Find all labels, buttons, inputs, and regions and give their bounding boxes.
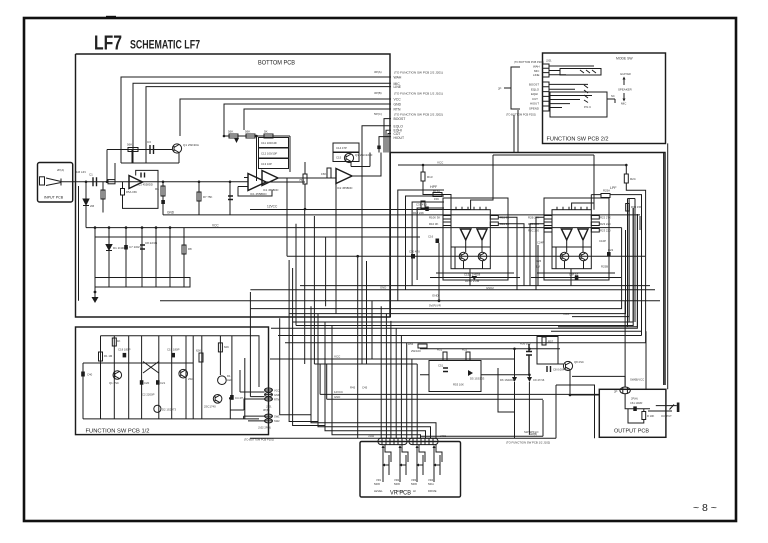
svg-text:R53 10K: R53 10K (453, 383, 464, 387)
svg-text:C51: C51 (438, 364, 444, 368)
svg-text:C61 100/R: C61 100/R (630, 401, 643, 405)
drive bias box (537, 337, 558, 365)
svg-text:R51: R51 (437, 348, 443, 352)
rail gnd4 (250, 289, 655, 291)
svg-text:5V(P)/VR: 5V(P)/VR (429, 304, 441, 308)
svg-text:VR3: VR3 (411, 478, 417, 482)
FUNCTION SW PCB 2/2 box (543, 53, 666, 144)
svg-text:C14 47P: C14 47P (336, 146, 347, 150)
svg-text:R7 75K: R7 75K (203, 195, 212, 199)
svg-text:D6 1N4002: D6 1N4002 (500, 378, 515, 382)
ground arrow (92, 297, 99, 303)
svg-text:(TO BOTTOM PCB P201): (TO BOTTOM PCB P201) (514, 60, 544, 64)
wire MIC bus (133, 83, 391, 163)
svg-text:C4 47U: C4 47U (235, 396, 244, 400)
wire drop f (169, 228, 171, 278)
svg-text:2SC1740: 2SC1740 (204, 405, 216, 409)
svg-text:2SC: 2SC (188, 377, 193, 381)
resistor R1 input (108, 180, 115, 184)
jfet pair HPF left (460, 229, 471, 240)
f12 second rail (83, 362, 193, 364)
svg-text:56K: 56K (127, 143, 132, 147)
svg-text:LF7: LF7 (94, 32, 122, 55)
wire center drop 366 (366, 261, 368, 364)
svg-text:12VCC: 12VCC (267, 205, 278, 209)
svg-text:R55: R55 (408, 342, 414, 346)
svg-text:C3: C3 (147, 140, 151, 144)
wire R38 riser (304, 162, 306, 209)
diode drive (468, 370, 473, 376)
hpf inner box pin ticks (456, 207, 486, 210)
svg-text:GND: GND (274, 393, 280, 397)
vr feed 4 (395, 328, 397, 438)
wire bias riser (85, 182, 87, 228)
svg-text:50KA: 50KA (428, 483, 434, 486)
resistor R30 (626, 204, 630, 212)
f12 comb 11 (244, 358, 246, 419)
pot VR3 wiper (419, 455, 423, 475)
svg-text:C15: C15 (336, 156, 342, 160)
wire ext inner vertical (593, 155, 595, 203)
wire vert 325 (325, 237, 327, 306)
f12 comb 0 (192, 336, 194, 419)
hpf bottom rungs (430, 273, 520, 278)
f12 cross wires (143, 362, 159, 374)
svg-text:J102 2P(B): J102 2P(B) (258, 426, 271, 430)
svg-text:2P(H): 2P(H) (631, 397, 638, 401)
resistor R14 (443, 222, 451, 226)
resistor R25A (601, 194, 610, 198)
svg-text:C40: C40 (87, 373, 93, 377)
fsw22 nc stub (607, 99, 615, 103)
capacitor stack C12 (259, 148, 289, 158)
svg-text:2P: 2P (498, 87, 502, 91)
junction dot vr feed (356, 255, 359, 258)
VCC tone rail (398, 164, 626, 166)
svg-text:(TO BOTTOM PCB P101): (TO BOTTOM PCB P101) (244, 438, 274, 442)
capacitor C47u (230, 395, 234, 400)
svg-text:VCC: VCC (274, 388, 280, 392)
fsw22 wires g1 (549, 66, 594, 75)
f12 comb 8 (201, 336, 203, 419)
svg-text:56K: 56K (228, 130, 233, 134)
capacitor C4 (228, 196, 233, 200)
svg-text:C12 100/10F: C12 100/10F (261, 152, 277, 156)
wire drop a (94, 228, 96, 278)
svg-text:R24: R24 (630, 177, 636, 181)
lpf inner box (552, 210, 591, 269)
svg-text:C11 100/10F: C11 100/10F (261, 141, 277, 145)
resistor R11b (490, 222, 498, 226)
capacitor C2 polar (161, 200, 165, 204)
capacitor C30 on mid rail (411, 254, 415, 259)
svg-text:VR1: VR1 (376, 478, 382, 482)
lpf bottom rungs (531, 273, 621, 278)
svg-text:2M: 2M (90, 204, 95, 208)
resistor R62 (199, 353, 203, 362)
transistor Q103 (213, 395, 222, 404)
svg-text:R10K 3K: R10K 3K (429, 216, 440, 220)
svg-text:1M LIN: 1M LIN (76, 170, 86, 174)
op-amp IC1a (248, 174, 266, 191)
resistor R12 (421, 201, 425, 209)
capacitor C60 (633, 406, 637, 411)
f12 connector J103 pins (265, 416, 273, 421)
wire pass vert 279 (280, 318, 311, 415)
rail gnd3 (300, 285, 650, 287)
f12 comb 2 (113, 336, 115, 419)
wire output connector riser (625, 301, 646, 389)
wire hpf cap drop (438, 243, 440, 301)
resistor R11 (490, 216, 498, 220)
pot VR3 (416, 448, 418, 482)
capacitor C8 0.0047 (547, 366, 551, 372)
svg-text:62K: 62K (196, 349, 201, 353)
wire f12 feed rtn (230, 398, 264, 419)
junction dots row (255, 135, 258, 138)
svg-text:15K: 15K (434, 197, 439, 201)
INPUT PCB box (38, 163, 73, 203)
capacitor C8 (140, 245, 145, 249)
transistor Q1 leads (174, 145, 179, 159)
svg-text:LINE: LINE (394, 85, 402, 89)
f12 comb 5 (158, 336, 160, 419)
wire 498 drop (498, 368, 515, 412)
wire hpf loop4 (417, 208, 444, 280)
capacitor C21 (156, 380, 160, 385)
wire op-amp out (266, 181, 305, 183)
VCC rail (86, 227, 441, 229)
wire IC1b out (278, 177, 336, 179)
pot VR4 wiper (436, 455, 440, 475)
wire vert 304 (304, 210, 306, 365)
svg-text:3P(B): 3P(B) (263, 408, 270, 412)
wire hpf mid (451, 246, 490, 248)
wire q8 base feed (558, 363, 563, 365)
resistor R60 (642, 412, 646, 420)
svg-text:HPF: HPF (430, 185, 438, 189)
svg-text:SCHEMATIC LF7: SCHEMATIC LF7 (130, 38, 200, 52)
rail 364 (314, 363, 417, 365)
output jack switch (670, 405, 675, 410)
svg-text:GND: GND (380, 286, 386, 290)
wire f12 feed vcc (240, 309, 265, 397)
svg-text:SW(B)VCC: SW(B)VCC (630, 378, 644, 382)
FUNCTION SW PCB 1/2 box (76, 327, 269, 435)
svg-text:WAH: WAH (394, 76, 402, 80)
capacitor on HIOUT riser (377, 146, 380, 150)
capacitor C3 (150, 145, 154, 154)
OUTPUT PCB box (599, 389, 666, 437)
staircase right 1 (572, 205, 629, 317)
svg-text:3P(B): 3P(B) (374, 91, 382, 95)
pot VR1 (382, 448, 384, 482)
svg-text:VR2: VR2 (394, 478, 400, 482)
svg-text:56K: 56K (245, 130, 250, 134)
svg-text:BASS: BASS (396, 489, 404, 493)
wire ext top verticals (390, 153, 392, 318)
svg-text:62K: 62K (224, 345, 229, 349)
wire Q3 emitter (351, 166, 370, 168)
rail aux (95, 236, 420, 238)
wire ground return left (78, 186, 80, 301)
wire drop d (141, 228, 143, 278)
transistor lpf Q left (560, 252, 569, 261)
svg-text:IC1 4558DD: IC1 4558DD (263, 188, 278, 192)
wire R6 riser (162, 182, 164, 215)
mode down arrow (623, 93, 625, 99)
wire output feed (572, 376, 625, 387)
output jack line2 (648, 410, 672, 412)
f12 comb 4 (141, 336, 143, 419)
svg-text:CUT: CUT (532, 97, 538, 101)
resistor R2D (544, 229, 552, 233)
jfet pair LPF right (578, 229, 588, 240)
svg-text:DRIVE: DRIVE (428, 489, 437, 493)
fsw22 switch marks 2 (584, 85, 588, 103)
capacitor feedback c5 (141, 173, 145, 178)
svg-text:FUNCTION SW PCB 1/2: FUNCTION SW PCB 1/2 (86, 429, 150, 435)
svg-text:50KB: 50KB (394, 483, 400, 486)
fsw22 switch marks 1 (580, 70, 596, 73)
wire CUT stub (388, 134, 391, 153)
diode D1 (106, 245, 112, 251)
capacitor hpf polar (436, 239, 440, 244)
wire lpf top feed (572, 155, 594, 210)
capacitor C55 (526, 344, 532, 375)
svg-text:C10P: C10P (599, 239, 606, 243)
wire mid connect a (469, 208, 471, 211)
wire stack right riser (289, 136, 291, 172)
capacitor C20 (140, 380, 144, 385)
capacitor stack C15 (333, 153, 359, 162)
svg-text:C21: C21 (160, 381, 166, 385)
wire preamp row (107, 149, 172, 151)
resistor R60 loop (628, 409, 644, 423)
wire mid row (121, 159, 179, 164)
switch block P101 (95, 278, 190, 288)
wire lpf inner drops (556, 240, 584, 286)
center drop s (325, 322, 426, 438)
svg-text:LEVEL: LEVEL (374, 489, 383, 493)
svg-text:GND: GND (167, 211, 175, 215)
wire VCC bus (180, 99, 391, 136)
input jack plug (40, 177, 45, 185)
transistor lpf Q right (579, 252, 588, 261)
svg-text:VCC: VCC (334, 355, 341, 359)
wire center drop 362 (361, 256, 363, 364)
wire hpf loop1 (398, 190, 444, 301)
capacitor C8F (575, 276, 579, 281)
junction dot (94, 291, 97, 294)
svg-text:15K: 15K (321, 172, 326, 176)
resistor ring box (628, 199, 636, 327)
resistor R57 (542, 337, 546, 345)
wire stack left riser (256, 136, 258, 181)
svg-text:R1 1M: R1 1M (104, 354, 113, 358)
svg-text:SW(B): SW(B) (529, 432, 537, 436)
wire vert 296 (295, 224, 297, 326)
svg-text:C9 47/16: C9 47/16 (533, 378, 545, 382)
resistor R23b (591, 229, 599, 233)
diode D2 (234, 138, 239, 143)
wire vert 357 (357, 256, 359, 438)
fsw22 wires g2 (549, 84, 592, 107)
svg-text:(TO FUNCTION SW PCB 2/2 J201): (TO FUNCTION SW PCB 2/2 J201) (394, 71, 443, 75)
svg-text:D5 1SS133: D5 1SS133 (470, 377, 485, 381)
wire input signal (61, 181, 248, 183)
svg-text:VCC: VCC (394, 98, 402, 102)
pot VR2 wiper (402, 455, 406, 475)
svg-text:C45: C45 (362, 386, 368, 390)
resistor R4 on signal (106, 150, 108, 182)
output jack plug (677, 403, 680, 413)
junction dot vr5 (438, 299, 441, 302)
svg-text:VCC: VCC (437, 161, 444, 165)
resistor R3 (101, 190, 105, 199)
drive box (429, 361, 481, 392)
wire feedback IC1a (238, 187, 272, 197)
capacitor stack C13 (259, 159, 289, 169)
svg-text:J102: J102 (368, 434, 375, 438)
bus line 1 (250, 268, 621, 309)
resistor R33 (229, 134, 238, 138)
svg-text:R10 3K: R10 3K (429, 222, 438, 226)
svg-text:GUITAR: GUITAR (620, 72, 631, 76)
wire input sub riser (102, 182, 104, 213)
resistor R35 (246, 134, 255, 138)
transistor hpf Q right (478, 252, 487, 261)
wire drop e (155, 228, 157, 278)
resistor drive a (443, 352, 447, 361)
svg-text:HI: HI (413, 489, 416, 493)
op-amp IC1a inputs (244, 178, 248, 187)
wire p202 drop b (517, 110, 519, 153)
svg-text:R45: R45 (350, 386, 356, 390)
capacitor C19 (171, 353, 175, 358)
staircase right 2 (565, 208, 633, 322)
rail vr5 (160, 300, 660, 302)
diode LED D101 (218, 376, 227, 385)
svg-text:75K: 75K (299, 178, 304, 182)
svg-text:R6: R6 (155, 187, 159, 191)
vr feed 1 (380, 306, 382, 438)
staircase right 3 (558, 214, 637, 327)
svg-text:SPEND: SPEND (529, 107, 539, 111)
wire to ground (94, 287, 96, 297)
rail 359 (270, 358, 515, 360)
center drop q (311, 306, 436, 438)
resistor R55 (418, 344, 427, 348)
fsw22 bracket (504, 67, 520, 109)
capacitor stack C14 (333, 143, 359, 152)
center drop t (332, 326, 421, 439)
resistor R38 (303, 174, 307, 184)
wire pass vert 289 (289, 260, 318, 422)
svg-text:GND2: GND2 (486, 286, 494, 290)
svg-text:NC: NC (611, 94, 615, 98)
bus line 4 (296, 208, 633, 326)
fsw22 switch body 1 (560, 69, 601, 76)
bus line 2 (289, 230, 625, 314)
transistor Q101 (113, 371, 122, 380)
wire vert 314 (313, 216, 315, 364)
svg-text:R25A: R25A (603, 189, 610, 193)
svg-text:RTN: RTN (394, 108, 401, 112)
resistor R2B (544, 216, 552, 220)
wire vert 336 (335, 178, 337, 314)
resistor R40 (327, 168, 331, 178)
wire drop c (125, 228, 127, 278)
svg-text:5K: 5K (264, 130, 268, 134)
jfet pair HPF right (477, 229, 487, 240)
svg-text:SPEAKER: SPEAKER (618, 88, 632, 92)
wire top resistor row (224, 135, 290, 137)
wire gnd2 drop (639, 216, 641, 230)
svg-text:LINE: LINE (533, 73, 539, 77)
svg-text:R 10K: R 10K (647, 414, 654, 418)
wire LINE bus (146, 87, 391, 163)
connector J102 body (378, 438, 407, 444)
connector J401 pins (413, 438, 433, 444)
wire drop b (108, 228, 110, 278)
diode D7 (527, 377, 532, 382)
svg-text:C16: C16 (428, 235, 434, 239)
transistor Q3 leads (346, 154, 351, 167)
wire lpf cap drop (537, 245, 539, 286)
resistor 56K (128, 148, 138, 152)
f12 resistor R101 (99, 352, 103, 361)
capacitor drive (443, 368, 448, 372)
wire D7 riser (528, 375, 530, 435)
resistor R5A feedback (121, 189, 125, 196)
svg-text:~ 8 ~: ~ 8 ~ (693, 502, 717, 514)
transistor Q102 (179, 369, 188, 378)
rail 348 (420, 348, 560, 350)
rail GND lower (327, 364, 543, 399)
wire drive in (420, 374, 529, 376)
connector J401 body (409, 438, 438, 444)
vr feed 3 (390, 321, 392, 438)
svg-text:R52: R52 (462, 348, 468, 352)
wire hpf top feed (471, 155, 594, 210)
wire hpf inner drops (455, 240, 483, 286)
svg-text:BOOST: BOOST (529, 83, 539, 87)
wire HIOUT bus (379, 137, 391, 153)
f12 comb 1 (100, 336, 102, 419)
svg-text:FUNCTION SW PCB 2/2: FUNCTION SW PCB 2/2 (547, 137, 609, 143)
wire vcc right run (441, 228, 622, 268)
svg-text:GND: GND (334, 395, 340, 399)
BOTTOM PCB outline (76, 54, 666, 385)
diode hpf (472, 276, 478, 280)
pot VR4 (433, 448, 435, 482)
svg-text:(TO BOTTOM PCB P202): (TO BOTTOM PCB P202) (506, 113, 536, 117)
transistor Q104 (154, 405, 161, 412)
switch block dividers (109, 278, 184, 288)
vr long rail (250, 437, 556, 439)
svg-text:R13: R13 (427, 175, 433, 179)
jfet pair LPF left (561, 229, 572, 240)
svg-text:C19 180P: C19 180P (167, 348, 180, 352)
wire hpf loop3 (412, 202, 444, 286)
svg-text:GND: GND (394, 103, 402, 107)
vr feed 5 (400, 336, 402, 439)
svg-text:50KB: 50KB (411, 483, 417, 486)
svg-text:OUTPUT PCB: OUTPUT PCB (614, 429, 649, 435)
svg-text:VCC: VCC (212, 223, 219, 227)
capacitor C18 (123, 353, 127, 358)
